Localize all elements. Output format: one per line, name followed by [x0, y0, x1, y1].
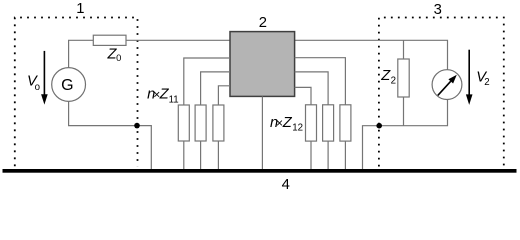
load block 3 dotted boundary: [379, 18, 504, 167]
wire loop to left element 1: [184, 58, 230, 105]
wire generator bottom to node and down: [69, 101, 152, 169]
svg-text:4: 4: [282, 177, 290, 193]
svg-text:3: 3: [434, 2, 442, 18]
impedance group n x Z11 element 1: [178, 105, 189, 141]
svg-text:1: 1: [76, 1, 84, 17]
left element bottom leads: [183, 141, 185, 169]
wire loop to right element 3: [295, 58, 346, 105]
voltmeter circle: [432, 70, 462, 100]
Vo arrow: [43, 51, 45, 96]
svg-text:Z: Z: [282, 115, 293, 131]
svg-text:12: 12: [292, 123, 303, 134]
right element bottom leads: [310, 141, 312, 169]
impedance group n x Z12 element 2: [323, 105, 334, 141]
svg-text:11: 11: [169, 95, 179, 106]
generator G: [52, 68, 86, 102]
impedance group n x Z12 element 1: [306, 105, 317, 141]
center wire from network 2 bottom to bus: [261, 96, 263, 169]
svg-text:o: o: [35, 82, 40, 93]
wire load bottom rail to bus: [363, 100, 448, 170]
svg-text:2: 2: [391, 75, 396, 86]
svg-text:2: 2: [484, 77, 489, 88]
impedance Z2: [398, 59, 409, 97]
impedance group n x Z11 element 2: [195, 105, 206, 141]
ground bus 4: [3, 169, 517, 173]
svg-text:G: G: [61, 77, 73, 94]
wire loop to left element 3: [218, 86, 230, 105]
network 2 box: [230, 32, 295, 97]
wire Z0 to network 2: [126, 39, 230, 41]
voltmeter needle: [438, 81, 451, 95]
wire loop to right element 2: [295, 72, 329, 105]
node on port of block 1: [134, 123, 140, 129]
wire loop to right element 1: [295, 87, 311, 104]
source block 1 dotted boundary: [15, 18, 138, 167]
V2 arrow: [468, 50, 470, 96]
wire loop to left element 2: [201, 72, 230, 105]
impedance group n x Z11 element 3: [213, 105, 224, 141]
impedance Z0: [93, 35, 126, 45]
impedance group n x Z12 element 3: [340, 105, 351, 141]
node on port of block 3: [376, 123, 382, 129]
svg-text:Z: Z: [380, 68, 391, 84]
wire network 2 to meter: [295, 40, 448, 70]
svg-text:0: 0: [116, 52, 121, 63]
impedance Z2 leads: [403, 40, 405, 59]
wire from generator top to Z0: [69, 40, 94, 67]
svg-text:2: 2: [259, 15, 267, 31]
